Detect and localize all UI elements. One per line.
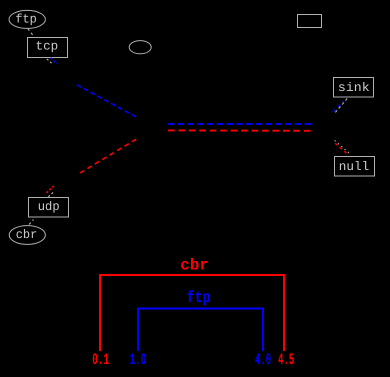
node cbr (source agent ellipse): [9, 226, 45, 245]
wire ftp-tcp (white dashed connector): [28, 29, 34, 37]
svg-text:ftp: ftp: [186, 289, 210, 307]
wire flow tcp->n2 (blue dashed main): [77, 85, 136, 117]
svg-text:udp: udp: [38, 200, 60, 214]
link n2 to null (red dashed diagonal): [335, 143, 347, 153]
svg-text:1.0: 1.0: [130, 351, 147, 369]
link n0 to n2 (blue dashed horizontal): [168, 123, 311, 125]
node ftp (source agent ellipse): [9, 10, 45, 28]
timeline bracket cbr (red): [100, 275, 284, 351]
agent udp (rectangle): [29, 198, 69, 218]
wire tcp stub (white dashed): [47, 59, 53, 65]
svg-text:ftp: ftp: [15, 13, 37, 27]
wire cbr-udp (white dashed connector): [29, 220, 34, 225]
svg-text:sink: sink: [338, 81, 370, 95]
agent sink (rectangle): [334, 78, 374, 98]
svg-text:4.5: 4.5: [278, 351, 294, 369]
svg-text:4.0: 4.0: [255, 351, 271, 369]
link n2 to sink (blue dashed diagonal): [333, 101, 343, 112]
svg-text:0.1: 0.1: [92, 351, 109, 369]
svg-text:cbr: cbr: [16, 228, 38, 242]
wire null stub (white dotted): [335, 140, 351, 154]
agent tcp (rectangle): [28, 38, 68, 58]
link n1 to n2 (red dashed horizontal): [168, 129, 311, 131]
wire flow udp->n2 (red dashed main): [80, 139, 136, 173]
svg-text:tcp: tcp: [36, 40, 59, 54]
svg-text:null: null: [339, 160, 369, 174]
agent null (rectangle): [335, 157, 375, 177]
wire udp stub (white dashed): [48, 191, 54, 197]
node n1 (empty ellipse top middle): [129, 41, 151, 54]
node legend box (empty rectangle top right): [298, 15, 322, 28]
link tcp to n0 (blue dashed diagonal): [51, 58, 57, 64]
svg-text:cbr: cbr: [180, 257, 209, 275]
timeline bracket ftp (blue): [138, 309, 263, 352]
wire sink stub (white dashed): [335, 98, 347, 112]
link udp to n1 (red dashed diagonal): [47, 185, 55, 193]
